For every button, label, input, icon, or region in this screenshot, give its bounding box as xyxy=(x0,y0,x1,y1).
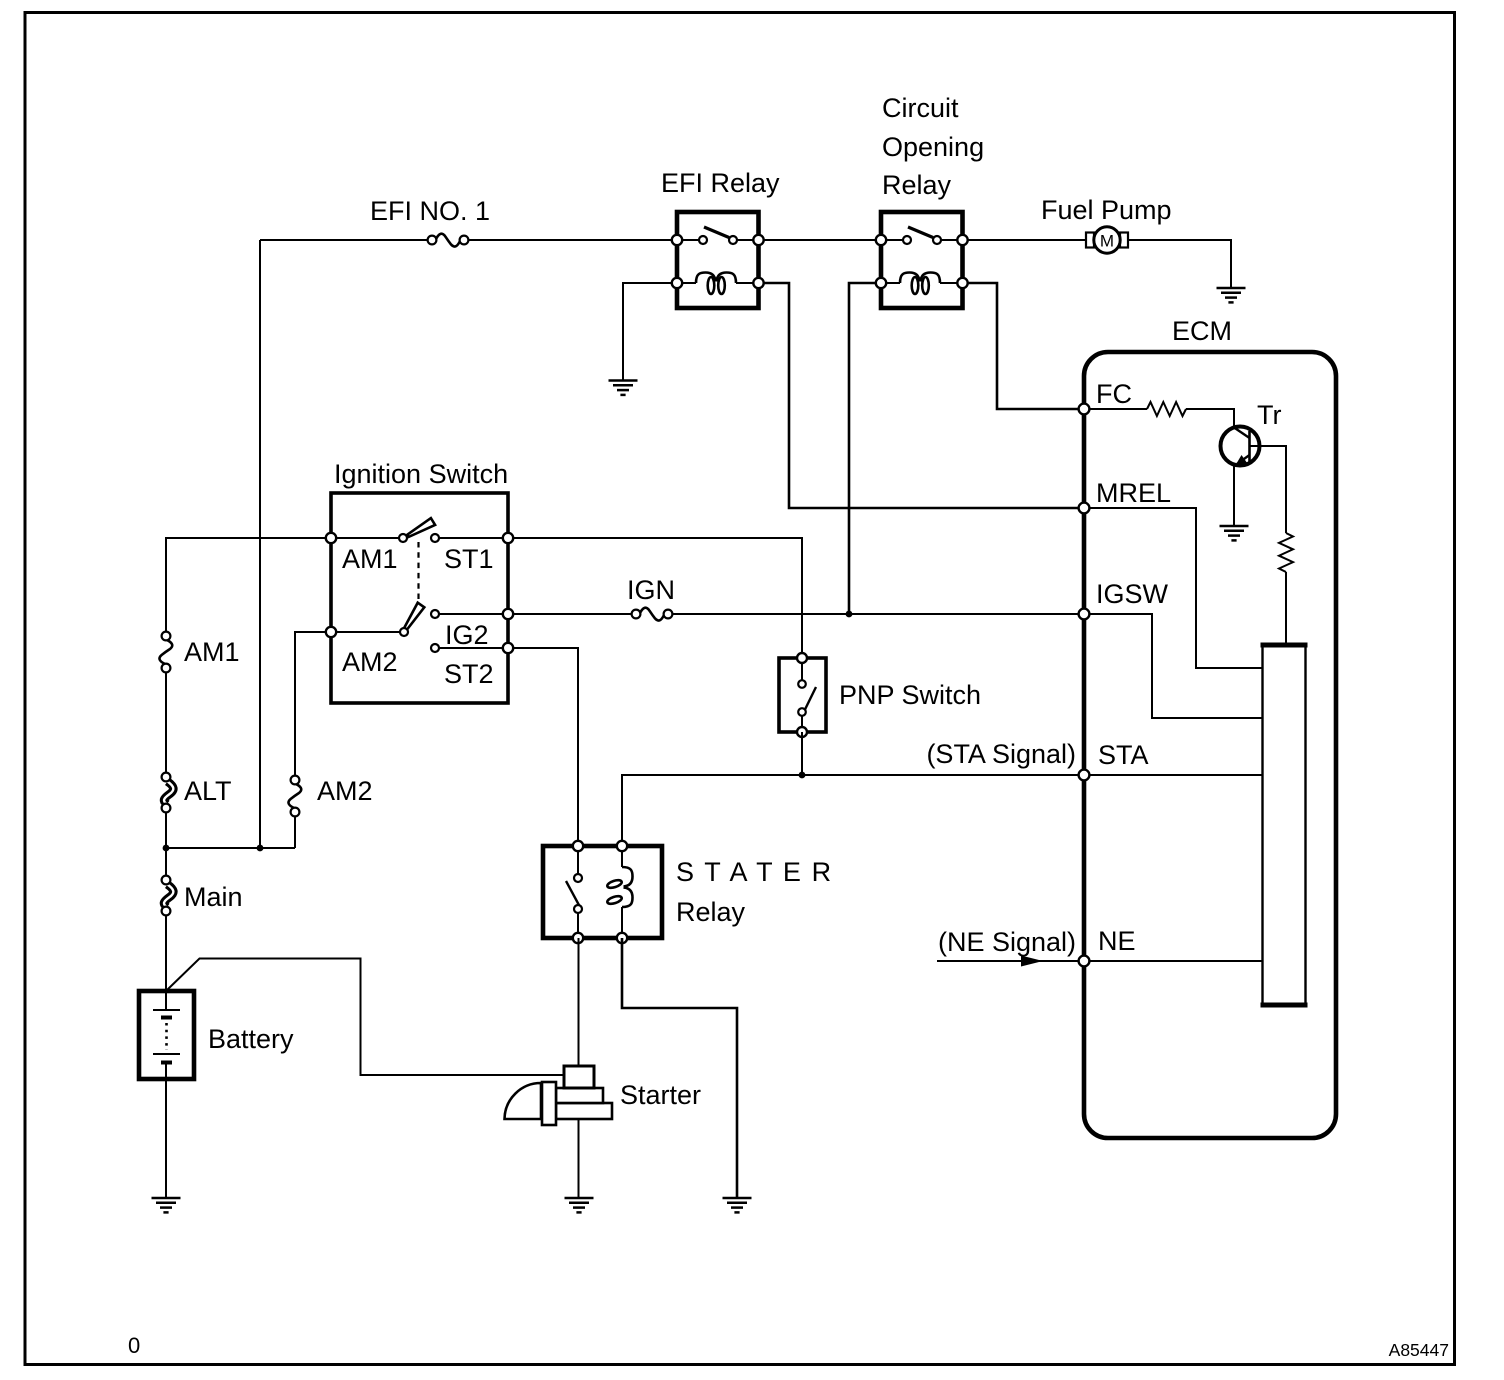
fuse AM2 xyxy=(288,776,301,817)
svg-text:EFI NO. 1: EFI NO. 1 xyxy=(370,196,490,226)
ground transistor emitter xyxy=(1220,526,1249,540)
wire: MREL internal xyxy=(1089,508,1262,668)
wire: IG2 row to IGN fuse xyxy=(435,613,632,615)
ground EFI relay coil xyxy=(609,381,638,395)
svg-text:ST2: ST2 xyxy=(444,659,494,689)
wire: left column top (AM1 row) xyxy=(166,538,331,632)
contact AM2 xyxy=(400,628,408,636)
wire: AM1 row inside xyxy=(331,537,403,539)
ECM internal block xyxy=(1261,645,1308,1005)
wire: battery to ground xyxy=(165,1063,167,1198)
wire: fuel pump to ground xyxy=(1128,240,1231,288)
svg-text:ST1: ST1 xyxy=(444,544,494,574)
svg-text:STA: STA xyxy=(1098,740,1149,770)
label Circuit Opening Relay xyxy=(882,93,984,200)
ground battery xyxy=(152,1198,181,1212)
terminal ST1 xyxy=(503,533,513,543)
node junction dot STA xyxy=(799,772,806,779)
svg-text:Fuel Pump: Fuel Pump xyxy=(1041,195,1172,225)
svg-text:AM2: AM2 xyxy=(342,647,398,677)
wire: transistor emitter to ground xyxy=(1233,465,1235,527)
wire: battery positive diagonal feed to starter xyxy=(167,959,564,1076)
svg-text:0: 0 xyxy=(128,1333,140,1358)
svg-text:Battery: Battery xyxy=(208,1024,294,1054)
wire: starter relay coil to ground xyxy=(622,938,737,1198)
svg-text:Main: Main xyxy=(184,882,243,912)
svg-text:M: M xyxy=(1100,232,1114,251)
wire: resistor to transistor collector xyxy=(1186,409,1234,428)
svg-text:PNP Switch: PNP Switch xyxy=(839,680,981,710)
svg-text:NE: NE xyxy=(1098,926,1136,956)
pin NE xyxy=(1079,956,1090,967)
contact IG2 xyxy=(431,610,439,618)
wire: FC pin to resistor xyxy=(1089,408,1147,410)
terminal ST2 xyxy=(503,643,513,653)
wire: AM2 fuse to ignition AM2 terminal xyxy=(295,632,331,776)
wire: ST2 row xyxy=(435,648,578,846)
wire: AM2 branch lower xyxy=(294,816,296,848)
svg-text:Relay: Relay xyxy=(676,897,746,927)
wire: resistor to internal block xyxy=(1285,572,1287,645)
svg-text:IG2: IG2 xyxy=(445,620,489,650)
wire: Main link to battery xyxy=(165,915,167,991)
node junction dot IGN/COR coil xyxy=(846,611,853,618)
starter motor xyxy=(505,1066,613,1125)
wire: COR relay to fuel pump xyxy=(963,239,1087,241)
svg-text:Ignition Switch: Ignition Switch xyxy=(334,459,508,489)
wire: COR coil right to ECM FC pin xyxy=(963,283,1080,409)
node junction dot EFI feed xyxy=(257,845,264,852)
fuel pump motor M xyxy=(1086,227,1128,253)
wire: IGN fuse to ECM IGSW pin xyxy=(672,613,1079,615)
svg-text:IGN: IGN xyxy=(627,575,675,605)
wire: EFI relay coil to ground xyxy=(623,283,677,381)
ground starter relay coil xyxy=(723,1198,752,1212)
transistor Tr xyxy=(1221,427,1260,467)
svg-text:Starter: Starter xyxy=(620,1080,701,1110)
dashed link between blades xyxy=(417,542,419,601)
svg-text:(STA Signal): (STA Signal) xyxy=(926,739,1076,769)
wire: STA internal xyxy=(1089,774,1262,776)
svg-text:S T A T E R: S T A T E R xyxy=(676,857,833,887)
wire: STA line (STA Signal) xyxy=(622,775,1079,846)
wire: EFI relay to Circuit Opening relay xyxy=(759,239,882,241)
svg-text:ALT: ALT xyxy=(184,776,232,806)
Circuit Opening relay U2 xyxy=(876,212,968,308)
svg-text:Opening: Opening xyxy=(882,132,984,162)
svg-text:Tr: Tr xyxy=(1257,400,1281,430)
wire: EFI relay coil to ECM MREL pin xyxy=(759,283,1080,508)
pin MREL xyxy=(1079,503,1090,514)
wire: NE line (NE Signal) xyxy=(937,960,1079,962)
ECM box xyxy=(1084,352,1336,1138)
terminal IG2 xyxy=(503,609,513,619)
svg-text:MREL: MREL xyxy=(1096,478,1171,508)
PNP switch S1 xyxy=(779,653,826,737)
svg-text:IGSW: IGSW xyxy=(1096,579,1169,609)
wire: transistor base lead xyxy=(1250,446,1287,533)
wire: fuse to EFI relay terminal 1 xyxy=(469,239,678,241)
resistor collector pull xyxy=(1279,533,1293,572)
wire: starter to ground xyxy=(578,1119,580,1198)
svg-text:EFI Relay: EFI Relay xyxy=(661,168,780,198)
svg-text:AM1: AM1 xyxy=(342,544,398,574)
wire: ST1 row to PNP switch xyxy=(435,538,802,658)
svg-text:A85447: A85447 xyxy=(1389,1340,1449,1360)
fusible link ALT xyxy=(162,773,174,813)
resistor FC xyxy=(1147,402,1186,416)
svg-text:Circuit: Circuit xyxy=(882,93,959,123)
fuse EFI NO. 1 xyxy=(428,234,469,247)
wire: ALT link to bus junction xyxy=(165,812,167,876)
switch blade AM2-IG2 xyxy=(403,603,424,632)
ground fuel pump xyxy=(1217,288,1246,302)
starter relay U3 xyxy=(543,841,662,943)
EFI relay U1 xyxy=(672,212,764,308)
ground starter xyxy=(565,1198,594,1212)
label STATER Relay xyxy=(676,857,833,927)
wire: bus to AM2 fuse branch xyxy=(166,847,295,849)
contact AM1 xyxy=(399,534,407,542)
fuse IGN xyxy=(632,608,673,621)
wire: AM2 row inside xyxy=(295,631,404,633)
fuse AM1 xyxy=(159,632,172,673)
wire: EFI NO.1 feed vertical xyxy=(259,240,261,848)
svg-text:FC: FC xyxy=(1096,379,1132,409)
pin FC xyxy=(1079,404,1090,415)
terminal AM1 xyxy=(326,533,336,543)
wire: starter relay contact to starter xyxy=(578,938,580,1066)
ignition switch box xyxy=(331,493,508,703)
svg-text:ECM: ECM xyxy=(1172,316,1232,346)
svg-text:(NE Signal): (NE Signal) xyxy=(938,927,1076,957)
wire: IGSW internal xyxy=(1089,614,1262,718)
wire: PNP switch to STA line xyxy=(801,732,803,775)
terminal AM2 xyxy=(326,627,336,637)
wire: AM1 fuse to ALT link xyxy=(165,672,167,773)
svg-text:AM1: AM1 xyxy=(184,637,240,667)
wire: battery feed to EFI NO.1 fuse xyxy=(260,239,428,241)
wire: NE internal xyxy=(1089,960,1262,962)
svg-text:Relay: Relay xyxy=(882,170,952,200)
arrow NE signal xyxy=(1021,956,1043,967)
switch blade AM1-ST1 xyxy=(407,518,435,537)
contact ST1 xyxy=(431,534,439,542)
pin IGSW xyxy=(1079,609,1090,620)
wire: COR coil left to IGN junction xyxy=(849,283,881,614)
contact ST2 xyxy=(431,644,439,652)
fusible link Main xyxy=(162,876,174,916)
battery xyxy=(139,991,194,1079)
node junction dot bus-left xyxy=(163,845,170,852)
pin STA xyxy=(1079,770,1090,781)
svg-text:AM2: AM2 xyxy=(317,776,373,806)
